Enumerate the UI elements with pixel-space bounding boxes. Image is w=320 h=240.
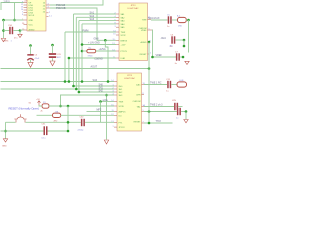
wire stub to ground: [19, 31, 21, 35]
capacitor C1: [4, 25, 21, 39]
svg-text:6: 6: [22, 14, 23, 16]
svg-text:AOUT: AOUT: [91, 66, 98, 69]
bus vertical v75.8: [75, 17, 77, 89]
svg-text:AG: AG: [170, 45, 173, 48]
svg-text:LIGHT DAC: LIGHT DAC: [124, 77, 136, 80]
svg-text:SY3D: SY3D: [119, 106, 125, 108]
svg-text:GND: GND: [2, 146, 7, 148]
svg-text:8: 8: [143, 93, 144, 95]
capacitor C11: [166, 79, 171, 93]
svg-text:a.Da: a.Da: [103, 99, 109, 102]
svg-text:TWR: TWR: [121, 32, 126, 34]
svg-text:VCC: VCC: [29, 25, 34, 27]
svg-text:SRA.M.AX: SRA.M.AX: [148, 17, 160, 20]
junction dot v148 AGND: [148, 41, 151, 44]
svg-text:ELB: ELB: [180, 80, 185, 82]
svg-text:2: 2: [112, 88, 113, 90]
wire vertical x3: [3, 20, 5, 38]
svg-text:RESET (Normally Open): RESET (Normally Open): [9, 106, 40, 110]
wire R8 to U3: [61, 114, 114, 116]
junction dot x5: [4, 130, 7, 133]
svg-text:PWM: PWM: [83, 30, 89, 33]
wire (3)GND row: [69, 57, 116, 59]
IC U2 right pin numbers: [148, 17, 151, 55]
junction dot H_a right: [148, 67, 151, 70]
junction dot row2: [183, 39, 186, 42]
svg-text:PGM UB: PGM UB: [56, 7, 66, 10]
wire C31 right: [48, 130, 69, 132]
junction dot (3)GND: [68, 57, 71, 60]
svg-text:2: 2: [49, 12, 50, 14]
wire TWE2 row: [144, 106, 174, 108]
vertical v148: [148, 68, 150, 124]
vertical x5: [5, 122, 7, 139]
resistor R1: [41, 102, 50, 112]
IC U3 right pin names: [133, 84, 142, 124]
wire row B: [4, 19, 24, 21]
wire switch row left: [6, 121, 16, 123]
rail H_e: [1, 88, 115, 90]
svg-text:1: 1: [150, 53, 151, 55]
wire net top-left: [1, 3, 24, 11]
IC U3 body: [117, 73, 142, 131]
svg-text:(3)GND: (3)GND: [95, 58, 104, 61]
junction dot: [187, 19, 190, 22]
junction dot: [182, 56, 185, 59]
wire H_c: [1, 81, 115, 83]
resistor R9: [177, 80, 187, 87]
ground arrow: [104, 140, 108, 144]
bus wire SA4: [82, 23, 116, 25]
svg-text:5.1: 5.1: [49, 16, 52, 18]
svg-text:L2N: L2N: [172, 100, 176, 102]
svg-text:2200p: 2200p: [78, 130, 85, 132]
svg-text:5: 5: [149, 28, 150, 30]
switch S1: [14, 114, 26, 122]
bus vertical v68.4: [68, 58, 70, 82]
vertical v100: [100, 102, 102, 123]
junction dot x106: [104, 39, 107, 42]
ground symbol: [18, 34, 22, 37]
capacitor C12: [172, 100, 183, 110]
svg-text:14: 14: [111, 80, 113, 82]
ground symbol: [1, 39, 5, 42]
svg-text:VREF: VREF: [141, 30, 147, 32]
IC U1 body: [27, 0, 46, 31]
wire TWR U3: [101, 101, 115, 103]
bus vertical v64.5: [64, 32, 66, 82]
svg-text:JP23: JP23: [131, 5, 137, 7]
ground arrow v106: [106, 95, 108, 140]
capacitor C30: [78, 116, 85, 131]
wire MF2 row: [87, 110, 115, 112]
IC U2 right pins: [148, 20, 153, 55]
capacitor C7: [174, 52, 183, 66]
bus wire SA2: [76, 16, 116, 18]
wire C11 to R9: [171, 84, 177, 86]
IC U1 left pin numbers: [21, 1, 23, 16]
IC U1 right pin numbers: [48, 3, 52, 17]
IC U2 left pin numbers: [112, 13, 115, 59]
svg-text:4: 4: [112, 94, 113, 96]
svg-text:LIGHT DAC: LIGHT DAC: [127, 7, 139, 10]
capacitor C6: [170, 35, 184, 49]
junction dot: [13, 19, 16, 22]
junction dot x67.5 bottom: [67, 130, 70, 133]
svg-text:AGND: AGND: [140, 41, 147, 44]
wire AGND link: [148, 42, 150, 68]
junction dot H_f: [78, 91, 81, 94]
wire C5 to R2: [172, 19, 178, 21]
capacitor C31: [42, 124, 48, 140]
svg-text:376m: 376m: [88, 55, 93, 57]
svg-text:JP12V: JP12V: [119, 127, 126, 129]
svg-text:AGND: AGND: [29, 29, 36, 32]
wire switch row right: [26, 121, 81, 123]
IC U2 right pin names: [139, 20, 148, 56]
vertical v106: [105, 40, 108, 81]
resistor R3: [87, 48, 96, 58]
svg-text:11: 11: [113, 39, 115, 41]
wire R3 to U2: [96, 50, 116, 52]
bus wire SA1: [74, 13, 117, 15]
svg-text:+ LIN GND: + LIN GND: [88, 42, 100, 45]
junction dot x67.5: [67, 121, 70, 124]
svg-text:2 RSI: 2 RSI: [4, 1, 10, 4]
svg-text:SA0: SA0: [93, 79, 98, 82]
svg-text:5: 5: [143, 110, 144, 112]
wire v183: [183, 40, 185, 46]
svg-text:+5V: +5V: [36, 99, 40, 101]
wire C1 to U1 pin: [20, 29, 24, 31]
svg-text:TH.8: TH.8: [156, 120, 162, 123]
svg-text:0 VR6: 0 VR6: [3, 41, 10, 43]
svg-text:JP23: JP23: [127, 75, 133, 77]
wire to R8: [37, 114, 53, 116]
svg-text:TWR: TWR: [119, 102, 124, 104]
junction dot H_g x106: [105, 94, 108, 97]
wire TWE1 row: [144, 84, 167, 86]
junction dot H_d: [72, 85, 75, 88]
wire H_f: [79, 91, 114, 93]
junction dot TRG: [148, 122, 151, 125]
svg-text:AMP2X: AMP2X: [119, 110, 127, 113]
IC U3 left pin numbers: [111, 80, 113, 128]
capacitor C3 electrolytic: [27, 44, 40, 67]
junction dot VREF: [151, 56, 154, 59]
ground symbol: [185, 61, 189, 64]
svg-text:SA3: SA3: [90, 18, 95, 21]
svg-text:TWE 2 ch 3: TWE 2 ch 3: [150, 104, 163, 107]
svg-text:..RLC: ..RLC: [160, 37, 166, 40]
IC U2 left pins: [116, 14, 119, 58]
IC U2 left pin names: [121, 13, 128, 60]
svg-text:CHROM: CHROM: [133, 101, 141, 103]
junction dot H_g: [59, 105, 62, 108]
bus wire PWM: [65, 31, 116, 33]
wire PGM LB: [50, 0, 103, 5]
IC U1 left pins: [24, 3, 28, 31]
wire TRG row: [144, 122, 173, 124]
rail H_a: [1, 68, 150, 70]
svg-text:3: 3: [114, 26, 115, 28]
wire H_g: [61, 95, 115, 106]
wire R1 to U3: [49, 105, 114, 107]
IC U1 right pins: [46, 5, 50, 16]
capacitor C29 electrolytic: [49, 44, 62, 66]
svg-text:MF2: MF2: [97, 109, 102, 112]
svg-text:MCLK: MCLK: [29, 15, 35, 17]
svg-text:1: 1: [112, 85, 113, 87]
junction dot C1 right: [19, 29, 22, 32]
junction dot: [99, 100, 102, 103]
wire R2 to rail: [186, 19, 188, 21]
junction dot: [2, 19, 5, 22]
junction dot x148.5: [148, 110, 151, 113]
IC U2 body: [119, 3, 148, 61]
svg-text:+12V: +12V: [121, 45, 127, 47]
svg-text:TWE: TWE: [142, 20, 147, 22]
ground symbol: [184, 120, 188, 123]
wire PGM UB: [50, 8, 116, 40]
junction dot C13 right: [185, 110, 188, 113]
wire +12V row: [82, 44, 116, 46]
svg-text:RESET: RESET: [134, 121, 142, 123]
bus wire SA3: [79, 20, 116, 22]
net labels S4x: [99, 83, 104, 92]
+5V symbol: [36, 99, 42, 106]
junction dot resistor row: [81, 50, 84, 53]
svg-text:BNF2X: BNF2X: [121, 40, 128, 42]
svg-text:+12VA: +12VA: [99, 48, 106, 51]
junction dot: [81, 43, 84, 46]
bus vertical v78.4: [78, 21, 80, 92]
resistor R8: [53, 111, 61, 122]
wire down to gnd: [185, 112, 187, 120]
svg-text:S42: S42: [99, 89, 104, 92]
svg-text:GND: GND: [29, 20, 34, 22]
wire to R3: [82, 50, 87, 52]
junction dot row3: [183, 45, 186, 48]
svg-text:15: 15: [113, 34, 115, 36]
resistor R2: [177, 14, 186, 27]
junction dot H_c v65: [64, 80, 67, 83]
capacitor C13: [176, 106, 186, 120]
svg-text:GN8: GN8: [94, 37, 100, 40]
svg-text:3: 3: [112, 91, 113, 93]
IC U3 left pins: [114, 82, 117, 128]
junction dot H_c v81: [81, 80, 84, 83]
junction dot C1 left: [2, 29, 5, 32]
IC U3 right pins: [142, 85, 145, 124]
svg-text:3: 3: [48, 6, 49, 8]
svg-text:DAC: DAC: [136, 84, 141, 87]
junction dot H_e: [75, 88, 78, 91]
svg-text:1: 1: [112, 126, 113, 128]
wire H_d: [74, 85, 115, 87]
capacitor C5: [167, 15, 172, 29]
right rail: [188, 20, 190, 53]
IC U1 power pin labels: [22, 1, 28, 31]
IC U1 right pin names: [43, 3, 46, 14]
bus vertical v73: [73, 14, 75, 86]
svg-text:RESET: RESET: [140, 54, 148, 56]
wire branch vertical x14: [14, 3, 16, 21]
svg-text:4: 4: [48, 3, 49, 5]
IC U1 left pin names: [29, 3, 36, 32]
svg-text:VREF: VREF: [156, 54, 163, 57]
svg-text:TWE 1 RC: TWE 1 RC: [150, 82, 162, 85]
bus labels: [83, 12, 95, 33]
wire VREF: [152, 30, 176, 57]
junction dot H_d x106: [107, 80, 110, 83]
svg-text:7: 7: [143, 121, 144, 123]
bus vertical v81.5: [81, 24, 83, 82]
svg-text:PT12V: PT12V: [121, 51, 128, 53]
IC U3 right pin numbers: [143, 83, 146, 124]
wire C30 to U3: [85, 121, 114, 123]
svg-text:SY32: SY32: [121, 35, 127, 37]
junction dot x67.5: [67, 105, 70, 108]
wire RST row: [144, 111, 177, 113]
svg-text:+5V: +5V: [24, 1, 28, 3]
svg-text:47uF: 47uF: [35, 58, 40, 60]
wire SRAM AX row: [151, 19, 168, 21]
svg-text:CHR: CHR: [136, 95, 141, 97]
junction dot H_c v68: [68, 80, 71, 83]
vertical v67.5: [67, 106, 69, 131]
wire bottom y130: [1, 130, 44, 132]
ground symbol: [3, 139, 7, 142]
IC U3 left pin names: [119, 86, 127, 129]
